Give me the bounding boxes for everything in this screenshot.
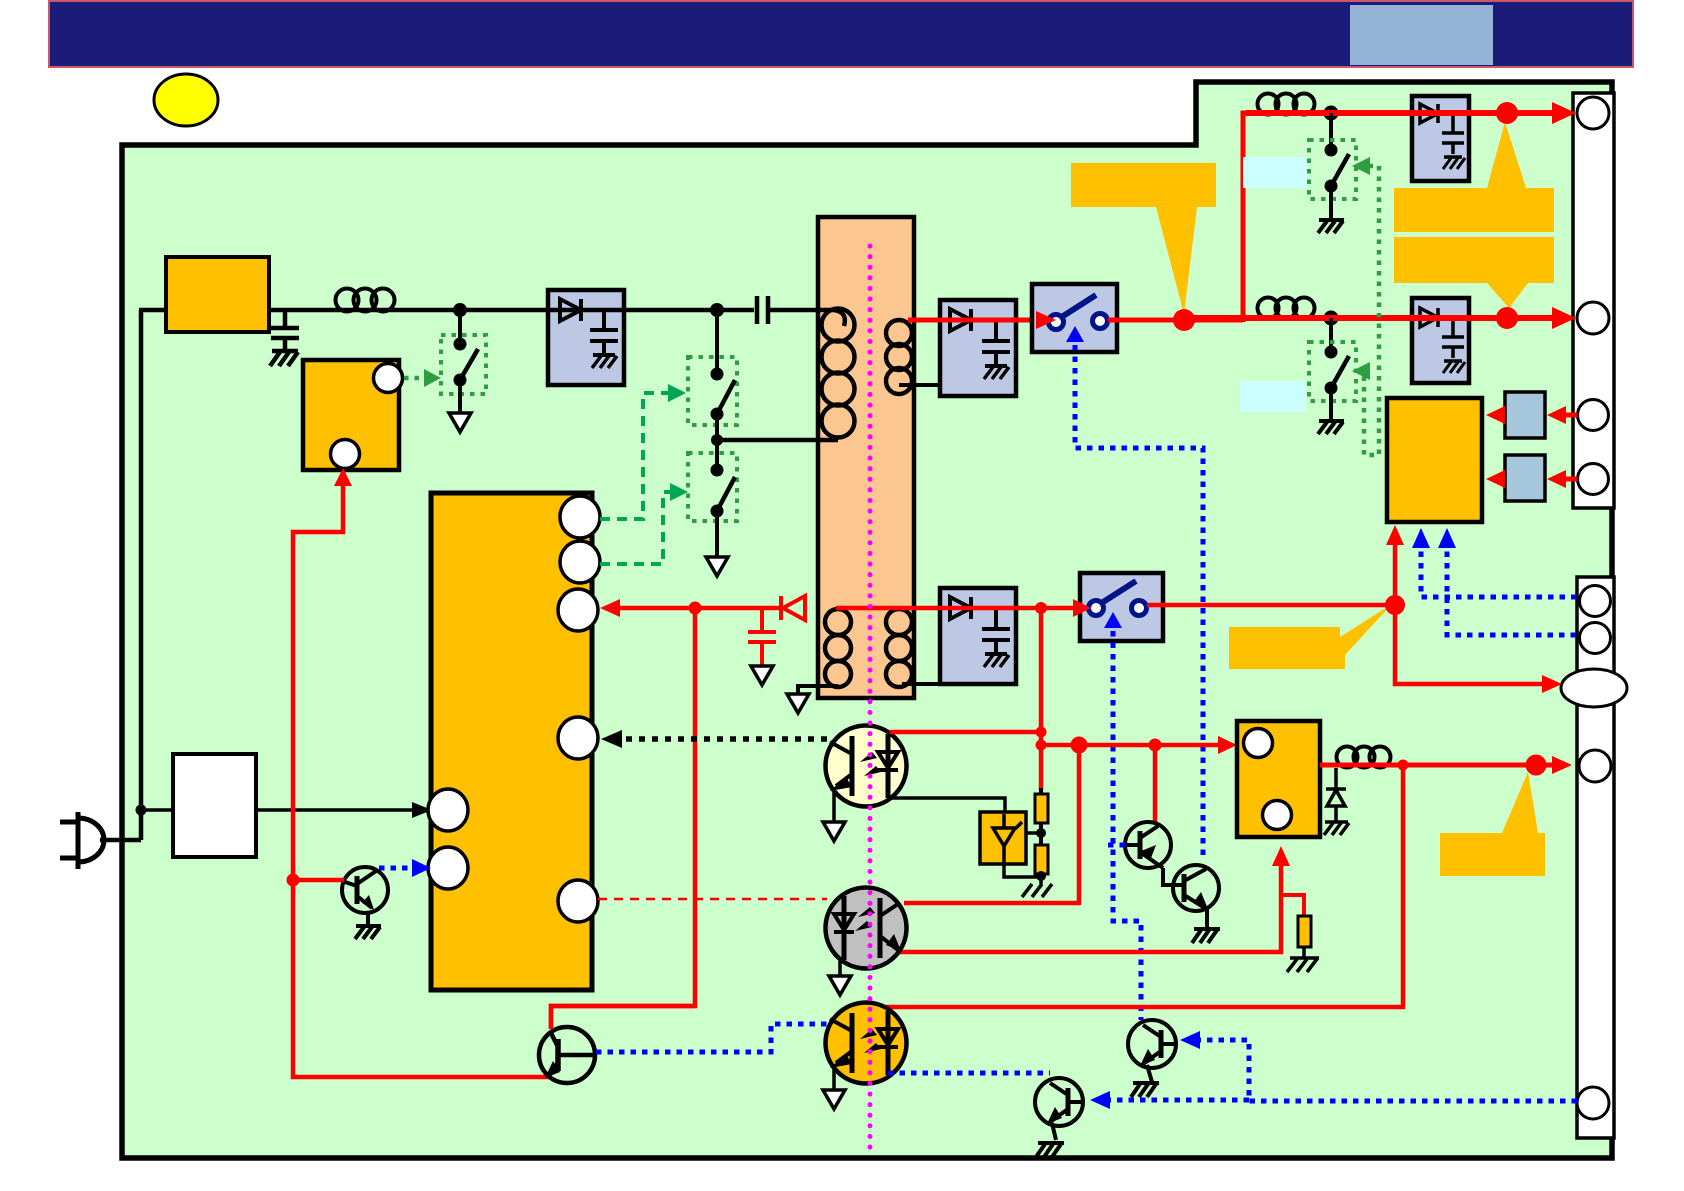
gate drive link 1 (green dashed) (600, 393, 673, 519)
node: junction at standby tap (136, 805, 147, 816)
wire: standby node to CN2 (red, arrow) (1395, 530, 1547, 684)
callout lower output bar (1394, 237, 1554, 308)
wire: CN1 pin4 to buffer2 (red, arrow) (1553, 477, 1577, 482)
wire: relay output (red) (1320, 763, 1340, 768)
yellow ellipse bullet (154, 74, 218, 126)
wire: +B riser to top output (red) (1243, 113, 1260, 322)
wire: Vcc winding to rectifier (red) (836, 606, 1086, 611)
wire: buffer2 to regulator (red, arrow) (1492, 477, 1505, 482)
wire: main line over U1 (548, 308, 624, 313)
ground under divider (1022, 874, 1052, 897)
header accent rectangle (1350, 5, 1493, 65)
transistor Q4 (protection, NPN) (1128, 1020, 1176, 1068)
node B: junction main line / half-bridge (710, 303, 724, 317)
connector CN2 pin 3 (large) (1561, 669, 1627, 707)
callout pointing to +B output node (1071, 163, 1216, 314)
wire: node A to inrush switch (458, 310, 462, 344)
interface buffer square 2 (light blue) (1505, 455, 1545, 501)
node: Vcc/relay junctions on red risers (1036, 727, 1047, 738)
transistor Q1 (relay driver, PNP) (1125, 822, 1171, 868)
wire: secondary top to switch module (red) (908, 318, 1040, 323)
optocoupler PC2 (relay control) (826, 888, 907, 969)
connector CN1 pin 1 (1577, 97, 1609, 129)
relay driver block (orange) with pins (303, 360, 399, 470)
node: divider tap (1039, 823, 1043, 846)
wire: AC input to filter (139, 308, 168, 313)
wire: S3 lower lead (715, 511, 719, 557)
control link: relay driver to S1 (green dotted arrow) (404, 376, 427, 381)
input filter block FL1 (orange) (166, 257, 269, 332)
wire: PC1 LED anode (red) (890, 730, 1041, 735)
inrush limiter relay switch S1 (green dotted box) (441, 335, 486, 394)
wire: standby rail to Q5 base (red) (293, 878, 344, 883)
indicator rectangle (cyan) bottom (1240, 381, 1306, 412)
control link into SW2 (blue dotted) (1113, 631, 1141, 1020)
wire: SW2 output to standby node (red) (1147, 603, 1395, 608)
connector CN2 body (1577, 577, 1614, 1138)
wire: L4 to CN2 (red, arrow) (1320, 763, 1562, 768)
node: standby output junction (1385, 595, 1405, 615)
wire: output line over U5 (1410, 315, 1471, 321)
transistor Q3 (remote on/off, NPN) (1035, 1078, 1083, 1126)
node: Vcc tap junction (1035, 602, 1047, 614)
inductor L2 (top output) (1258, 94, 1315, 115)
IC pin: feedback (558, 717, 598, 759)
wire: output line over U4 (1410, 110, 1471, 116)
wire: TL431 ref to divider tap (1026, 831, 1041, 835)
control links from CN2 (blue dotted bracket with arrows) (1194, 1040, 1577, 1101)
transformer secondary winding (bottom right) (886, 609, 912, 687)
capacitor C3 (red) with terminal (748, 608, 776, 666)
control link: PC3 output (blue dotted to Q3) (888, 1071, 1050, 1076)
wire: PC1 emitter to ground terminal (832, 788, 836, 822)
node C: junction between switches (711, 434, 723, 446)
connector CN2 pin 2 (1580, 623, 1611, 654)
standby supply block (white box) (173, 754, 256, 857)
connector CN1 body (1573, 93, 1614, 508)
ground under S4 (1318, 220, 1344, 233)
output rectifier module U5 (bottom) (1412, 298, 1469, 383)
ground under Q2 (1192, 908, 1220, 943)
wire: PC2 emitter to relay coil drive (red, arrow up) (890, 854, 1281, 952)
control link: IC to PC2 (red dashed) (598, 898, 827, 901)
ground under Q5 (355, 911, 381, 939)
wire: main AC line (269, 308, 754, 313)
resistor R1 (orange) (1039, 788, 1043, 795)
connector CN2 pin 4 (1579, 750, 1611, 782)
wire: tap to standby block (141, 808, 173, 812)
node: Vcc junction (689, 602, 702, 615)
wire: arrow into SW1 (overlay) (1036, 311, 1056, 329)
open arrow terminal under S3 (706, 557, 728, 576)
output rectifier module U4 (top) (1412, 96, 1469, 181)
secondary regulator block (orange) (1387, 398, 1482, 522)
title header bar (49, 1, 1633, 67)
IC pin: AC in (left) (428, 789, 468, 831)
gate drive link 2 (green dashed) (600, 492, 675, 564)
PWM controller IC U2 (large orange) (431, 493, 592, 990)
secondary rectifier module U3 (main output) (940, 300, 1016, 396)
wire: PC3 emitter to ground terminal (832, 1065, 836, 1090)
connector CN1 pin 4 (1578, 464, 1609, 495)
control link: Q5 to IC on/off pin (blue dotted arrow) (379, 866, 417, 871)
resistor R3 (orange) with ground (1281, 895, 1304, 917)
connector CN2 pin 5 (1577, 1087, 1609, 1119)
node: relay output dot (big red) (1526, 755, 1547, 776)
bridge rectifier module U1 (548, 290, 624, 385)
transformer T1 body (818, 217, 914, 698)
IC pin: drive2 (560, 541, 600, 583)
node: small junction on relay output (1398, 760, 1409, 771)
capacitor C2 (series, on main line) (757, 296, 768, 324)
wire: secondary top winding lower lead (899, 383, 940, 387)
transformer primary winding (822, 309, 855, 438)
wire: Vcc junction down to start circuit (red) (551, 608, 695, 1028)
transformer auxiliary winding (bottom left) (825, 609, 851, 687)
wire: junction down to Q1 (red) (1153, 745, 1158, 824)
wire: PC1 LED cathode to TL431 (888, 798, 1005, 814)
wire: C2 to transformer primary top (768, 308, 834, 313)
control links into regulator from CN2 (blue dotted, arrows up) (1421, 540, 1578, 597)
node: +B junction (big red dot) (1173, 309, 1195, 331)
load switch module SW1 (blue) (1032, 284, 1117, 352)
transformer isolation boundary (magenta dotted) (868, 246, 873, 1153)
feedback link: PC1 to IC (black dotted, arrow) (612, 736, 827, 742)
wire: Vcc line over U6 (938, 606, 1018, 611)
connector CN2 pin 1 (1580, 586, 1611, 617)
node: output dot (big red) (1496, 102, 1518, 124)
wire: top output line to CN1 (red, arrow) (1246, 110, 1560, 116)
open arrow terminal under S1 (449, 413, 471, 432)
shunt regulator TL431 (orange box) (980, 812, 1026, 864)
IC pin: protection (558, 880, 598, 922)
node: standby rail junction (287, 874, 300, 887)
wire: standby block to IC pin (arrow) (256, 808, 418, 812)
callout upper output bar (1394, 122, 1554, 232)
IC pin: Vcc (558, 589, 598, 631)
relay RY1 block (orange) with pins (1237, 721, 1320, 837)
wire: Vcc rail to IC (red, arrow into pin) (607, 606, 781, 611)
callout pointing to relay output (1440, 772, 1545, 876)
inductor L1 on main line (336, 289, 395, 312)
wire: buffer1 to regulator (red, arrow) (1492, 413, 1505, 418)
transistor Q5 (start-up) (342, 867, 388, 913)
node: big junction on relay feed (1071, 737, 1088, 754)
connector CN1 pin 3 (1578, 400, 1609, 431)
capacitor C1 (X-cap) with ground (271, 310, 299, 351)
wire: node B down to switching device S2 (715, 310, 719, 374)
connector CN1 pin 2 (1577, 302, 1609, 334)
ground under Q4 (1131, 1065, 1159, 1097)
wire: SW1 output to +B line (red) (1108, 318, 1243, 323)
wire: relay feed (red, arrow into relay box) (1041, 743, 1227, 748)
transistor Q6 (on/off driver) (539, 1027, 595, 1083)
wire: switch S1 lower lead (458, 380, 462, 413)
wire: secondary line over U3 (938, 318, 1018, 323)
control stub to Q1 base (blue dotted) (1108, 843, 1126, 848)
optocoupler PC3 (on/off control) (826, 1003, 907, 1084)
node: output dot 2 (big red) (1496, 307, 1518, 329)
diode D1 (red, Vcc feed) (781, 596, 805, 620)
power-supply board outline (green panel) (122, 82, 1612, 1158)
indicator rectangle (cyan) top (1243, 157, 1307, 188)
diode D2 (freewheel) with ground (1324, 768, 1349, 835)
wire: standby rail to relay driver (red, arrow up) (293, 480, 343, 535)
wire: Q6 collector feed (red) (551, 1006, 695, 1029)
control link into SW1 (blue dotted) (1075, 345, 1203, 860)
switching MOSFET S3 (green dotted box) (688, 453, 737, 521)
wire: PC2 LED cathode to ground terminal (838, 960, 842, 976)
wire: riser from SW2 input down to divider (red) (1039, 608, 1044, 790)
wire: second output line to CN1 (red, arrow) (1186, 315, 1560, 321)
open arrow terminal under aux winding (787, 694, 809, 713)
control link: Q6 to PC3 (blue dotted) (596, 1024, 832, 1052)
optocoupler PC1 (feedback) (826, 726, 907, 807)
wire: CN1 pin3 to buffer1 (red, arrow) (1553, 413, 1577, 418)
wire: primary winding hook at top (834, 310, 845, 326)
wire: bottom-right winding lower lead (902, 682, 940, 686)
inductor L4 (relay output) (1337, 747, 1391, 768)
control link to S4/S5 (green dotted) (1356, 166, 1379, 455)
wire: AC input vertical (139, 310, 144, 840)
wire: node C to primary winding bottom (717, 438, 838, 443)
standby switch module SW2 (blue) (1080, 573, 1163, 641)
wire: aux winding bottom to terminal (798, 686, 838, 694)
inductor L3 (second output) (1258, 298, 1315, 319)
IC pin: drive1 (right top) (560, 496, 600, 538)
wire: relay sense down to PC2 line (red) (884, 765, 1403, 1007)
node: L3 output junction (1324, 311, 1339, 326)
resistor R2 (orange) (1035, 845, 1048, 874)
transformer secondary winding (top) (886, 320, 912, 394)
transistor Q2 (relay driver, NPN) (1173, 865, 1219, 911)
ground under S5 (1318, 421, 1344, 434)
AC plug P1 (60, 812, 141, 869)
Vcc rectifier module U6 (940, 588, 1016, 684)
wire: standby rail vertical (red) (293, 535, 550, 1077)
node A: junction main line / inrush switch (453, 303, 467, 317)
callout pointing to standby node (1229, 604, 1392, 669)
diode D2 cathode bar (1326, 787, 1346, 791)
IC pin: on/off (left) (428, 847, 468, 889)
minimum-load switch S5 (green dotted box) (1329, 318, 1333, 352)
ground under Q3 (1036, 1123, 1064, 1157)
minimum-load switch S4 (green dotted box) (1329, 113, 1333, 150)
switching MOSFET S2 (green dotted box) (688, 357, 737, 425)
wire: Q1 emitter to Q2 base (1163, 868, 1184, 885)
wire: junction down to PC2 collector (red) (904, 745, 1079, 903)
node: L2 output junction (1324, 106, 1339, 121)
interface buffer square 1 (light blue) (1505, 392, 1545, 438)
